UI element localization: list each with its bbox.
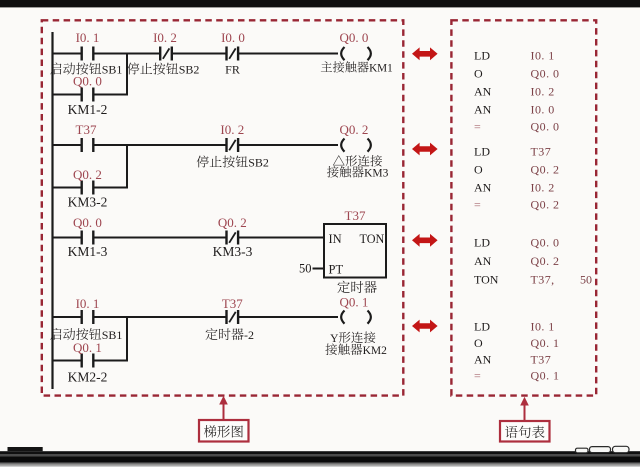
svg-text:KM1-2: KM1-2 — [68, 102, 108, 117]
svg-text:Q0. 0: Q0. 0 — [531, 67, 560, 81]
svg-text:Q0. 0: Q0. 0 — [340, 30, 369, 45]
wire branch1 vertical — [126, 53, 128, 95]
label box 梯形图 — [199, 420, 249, 442]
wire — [93, 187, 128, 189]
svg-text:=: = — [474, 198, 481, 212]
ladder diagram dashed frame — [42, 20, 404, 395]
svg-text:AN: AN — [474, 103, 492, 117]
svg-text:Y: Y — [330, 333, 339, 345]
wire — [93, 94, 128, 96]
svg-text:KM1-3: KM1-3 — [68, 244, 108, 259]
svg-text:I0. 1: I0. 1 — [76, 296, 100, 311]
wire — [93, 237, 226, 239]
svg-text:KM3: KM3 — [364, 168, 389, 180]
svg-text:=: = — [474, 120, 481, 134]
label 停止按钮SB2 — [127, 63, 139, 75]
double arrow 2 — [412, 143, 438, 156]
contact Q0.0 NO (KM1-2) — [80, 88, 82, 102]
svg-text:LD: LD — [474, 236, 490, 250]
svg-text:SB2: SB2 — [179, 63, 200, 77]
svg-text:TON: TON — [474, 273, 499, 287]
svg-text:O: O — [474, 67, 483, 81]
svg-text:Q0. 2: Q0. 2 — [531, 198, 560, 212]
wire 50 to PT — [313, 268, 324, 270]
contact I0.2 NC (stop button SB2) — [159, 47, 161, 61]
wire — [238, 144, 338, 146]
svg-text:I0. 2: I0. 2 — [220, 122, 244, 137]
contact I0.1 NO (start button SB1) — [80, 47, 82, 61]
svg-text:I0. 2: I0. 2 — [153, 30, 177, 45]
wire branch4 — [53, 360, 82, 362]
svg-text:T37: T37 — [345, 208, 366, 223]
svg-text:LD: LD — [474, 320, 490, 334]
svg-text:AN: AN — [474, 85, 492, 99]
callout arrow ladder — [223, 404, 225, 421]
svg-text:I0. 2: I0. 2 — [531, 181, 555, 195]
contact Q0.2 NC (KM3-3) — [225, 231, 227, 245]
svg-text:PT: PT — [329, 263, 344, 277]
svg-text:T37: T37 — [222, 296, 243, 311]
wire rung3 — [53, 237, 82, 239]
svg-text:Q0. 0: Q0. 0 — [73, 215, 102, 230]
wire — [93, 144, 226, 146]
svg-text:SB1: SB1 — [102, 63, 123, 77]
svg-text:T37: T37 — [531, 353, 552, 367]
svg-text:LD: LD — [474, 49, 490, 63]
svg-text:KM2-2: KM2-2 — [68, 370, 108, 385]
svg-text:KM2: KM2 — [363, 345, 388, 357]
label 接触器KM2 line2 — [325, 343, 337, 355]
svg-text:Q0. 1: Q0. 1 — [531, 369, 560, 383]
callout arrow statements — [524, 405, 526, 422]
svg-text:50: 50 — [299, 262, 312, 276]
top border bar — [0, 0, 640, 7]
wire — [238, 316, 338, 318]
wire branch2 vertical — [126, 144, 128, 188]
wire — [238, 237, 324, 239]
svg-text:KM3-3: KM3-3 — [213, 244, 253, 259]
svg-text:50: 50 — [580, 273, 592, 287]
svg-text:Q0. 0: Q0. 0 — [531, 236, 560, 250]
svg-text:LD: LD — [474, 145, 490, 159]
double arrow 1 — [412, 47, 438, 60]
svg-text:FR: FR — [225, 63, 240, 77]
contact T37 NO — [80, 138, 82, 152]
double arrow 4 — [412, 320, 438, 333]
svg-text:I0. 2: I0. 2 — [531, 85, 555, 99]
bottom small bar left — [8, 447, 43, 451]
wire — [172, 53, 227, 55]
timer T37 box TON — [324, 224, 386, 278]
wire branch1 — [53, 94, 82, 96]
contact I0.0 NC (FR) — [225, 47, 227, 61]
svg-text:TON: TON — [360, 232, 385, 246]
contact Q0.0 NO (KM1-3) — [80, 231, 82, 245]
svg-text:O: O — [474, 163, 483, 177]
statement list dashed frame — [451, 20, 596, 395]
wire rung4 — [53, 316, 82, 318]
wire — [93, 53, 160, 55]
svg-text:SB1: SB1 — [102, 328, 123, 342]
wire rung2 — [53, 144, 82, 146]
label 停止按钮SB2 — [197, 156, 209, 168]
svg-text:AN: AN — [474, 181, 492, 195]
svg-text:SB2: SB2 — [248, 156, 269, 170]
svg-text:Q0. 0: Q0. 0 — [73, 74, 102, 89]
svg-text:KM3-2: KM3-2 — [68, 195, 108, 210]
label box 语句表 — [500, 421, 550, 442]
label 启动按钮SB1 — [50, 63, 61, 75]
svg-text:Q0. 2: Q0. 2 — [531, 163, 560, 177]
coil Q0.1 (wye contactor KM2) — [341, 311, 344, 324]
bottom thick bar — [0, 456, 640, 463]
wire branch4 vertical — [126, 316, 128, 361]
svg-text:I0. 0: I0. 0 — [221, 30, 245, 45]
svg-text:-2: -2 — [244, 328, 254, 342]
bottom right object 1 — [576, 448, 589, 453]
label 启动按钮SB1 — [50, 328, 61, 340]
contact T37 NC (timer-2) — [225, 310, 227, 324]
wire rung1 — [53, 53, 82, 55]
contact Q0.2 NO (KM3-2) — [80, 181, 82, 195]
wire branch2 — [53, 187, 82, 189]
label 定时器 — [337, 281, 349, 293]
wire — [238, 53, 338, 55]
svg-text:I0. 1: I0. 1 — [531, 49, 555, 63]
svg-text:T37: T37 — [76, 122, 97, 137]
svg-text:=: = — [474, 369, 481, 383]
svg-text:T37: T37 — [531, 145, 552, 159]
svg-text:Q0. 2: Q0. 2 — [73, 167, 102, 182]
svg-text:Q0. 0: Q0. 0 — [531, 120, 560, 134]
contact I0.1 NO (start button SB1) — [80, 310, 82, 324]
svg-text:T37,: T37, — [531, 273, 555, 287]
label 定时器-2 — [205, 328, 217, 340]
svg-text:Q0. 2: Q0. 2 — [340, 122, 369, 137]
bottom rule line — [0, 451, 640, 454]
wire — [93, 360, 128, 362]
wire — [93, 316, 226, 318]
svg-text:Q0. 1: Q0. 1 — [531, 336, 560, 350]
svg-text:AN: AN — [474, 353, 492, 367]
left power rail — [51, 32, 53, 389]
double arrow 3 — [412, 234, 438, 247]
svg-text:I0. 1: I0. 1 — [76, 30, 100, 45]
bottom right object 3 — [613, 446, 630, 452]
contact I0.2 NC (stop button SB2) — [225, 138, 227, 152]
coil Q0.2 (delta contactor KM3) — [341, 139, 344, 152]
svg-text:AN: AN — [474, 254, 492, 268]
label 接触器KM3 line2 — [327, 166, 339, 178]
svg-text:Q0. 1: Q0. 1 — [340, 295, 369, 310]
label 主接触器KM1 — [321, 61, 332, 72]
svg-text:Q0. 2: Q0. 2 — [531, 254, 560, 268]
svg-text:I0. 1: I0. 1 — [531, 320, 555, 334]
bottom right object 2 — [590, 447, 611, 453]
svg-text:Q0. 1: Q0. 1 — [73, 340, 102, 355]
svg-text:KM1: KM1 — [369, 63, 393, 75]
contact Q0.1 NO (KM2-2) — [80, 354, 82, 368]
svg-text:O: O — [474, 336, 483, 350]
svg-text:Q0. 2: Q0. 2 — [218, 215, 247, 230]
coil Q0.0 (main contactor KM1) — [341, 47, 344, 60]
label 三角形连接 line1 — [333, 155, 345, 165]
svg-text:I0. 0: I0. 0 — [531, 103, 555, 117]
svg-text:IN: IN — [329, 232, 342, 246]
